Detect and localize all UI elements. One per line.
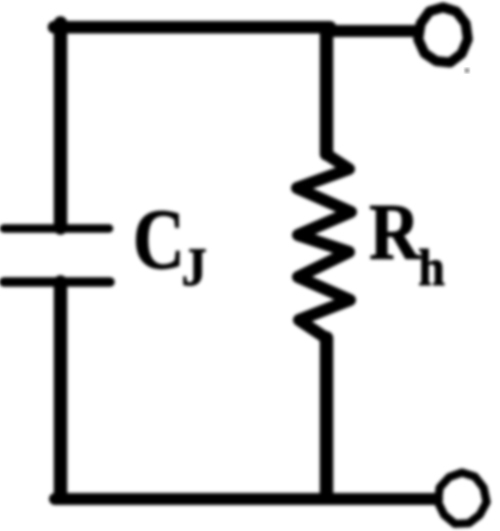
svg-text:C: C	[133, 192, 185, 287]
svg-text:J: J	[181, 238, 206, 298]
svg-text:h: h	[418, 238, 445, 296]
svg-text:R: R	[369, 189, 421, 277]
